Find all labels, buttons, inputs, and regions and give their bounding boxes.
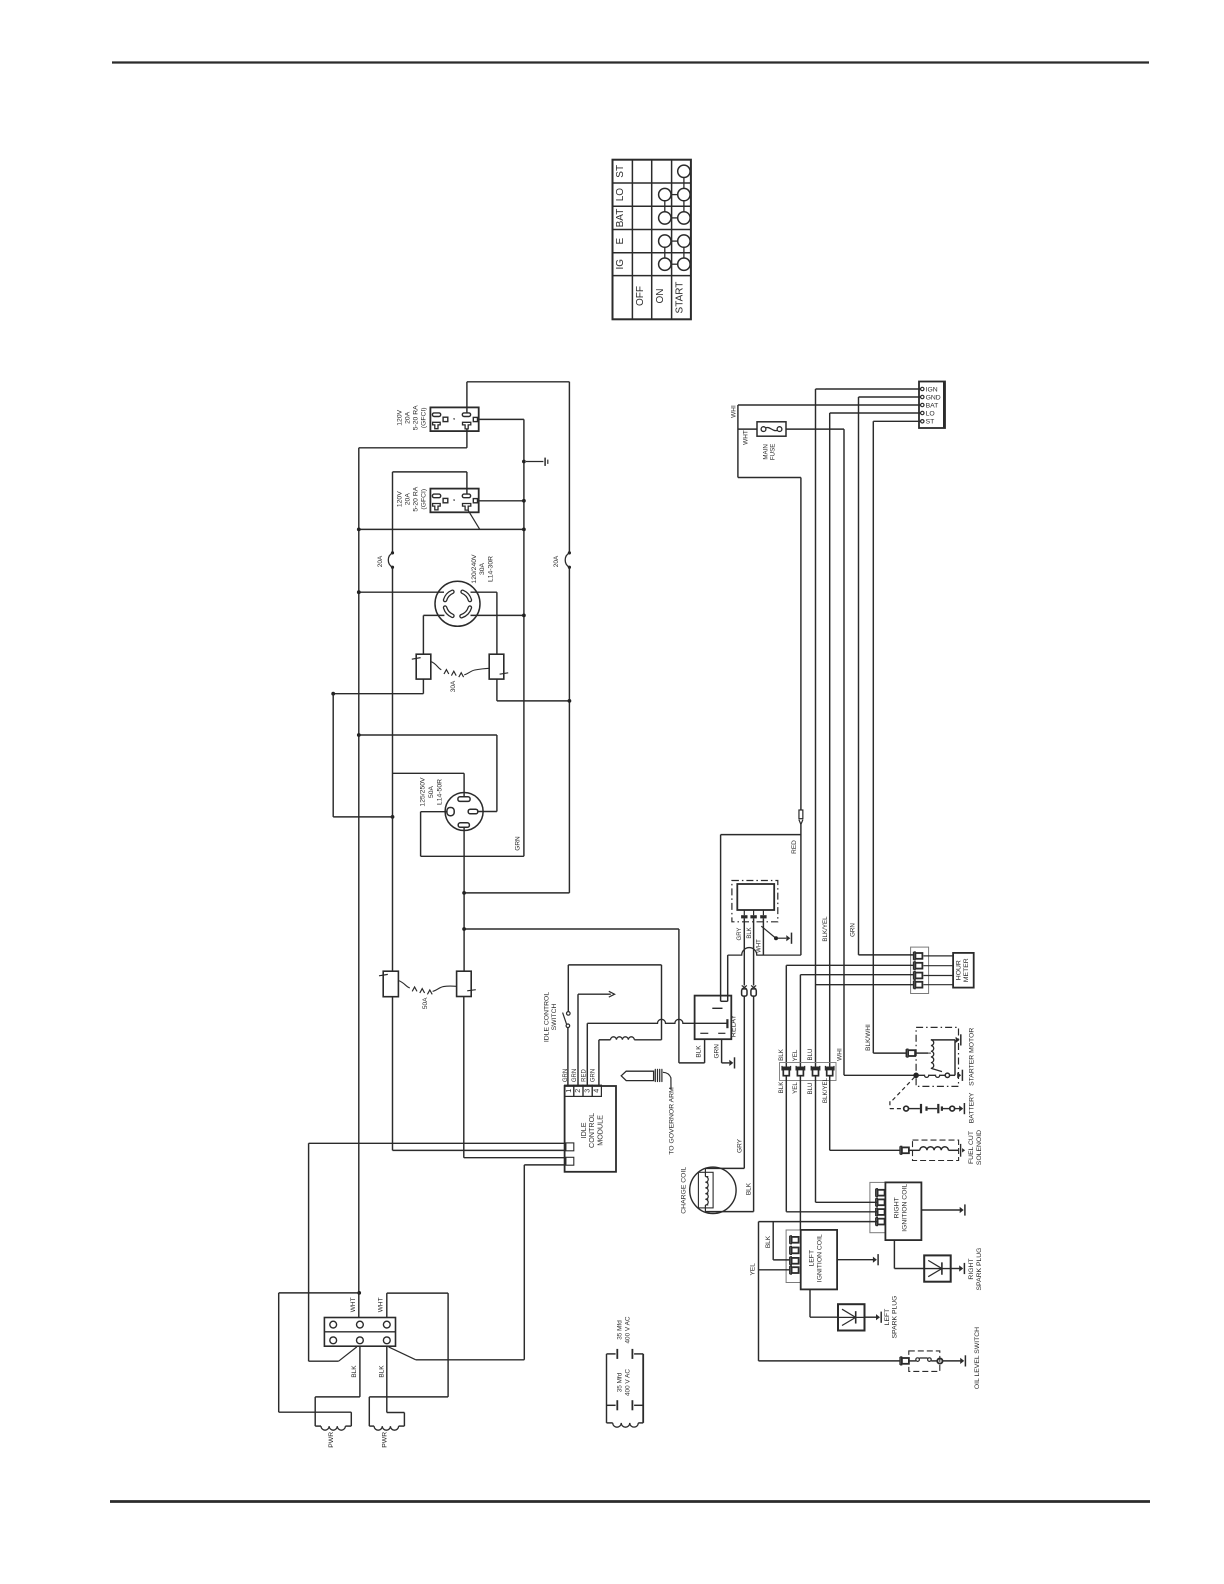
module pin1 wire to switch xyxy=(567,1028,569,1086)
table contact circles ON column xyxy=(659,188,671,200)
svg-text:BATTERY: BATTERY xyxy=(969,1092,976,1123)
wire to hour meter pin2 xyxy=(786,964,913,966)
svg-text:30A: 30A xyxy=(479,562,486,575)
generator winding xyxy=(607,1422,613,1424)
svg-text:BLK: BLK xyxy=(351,1365,358,1378)
svg-text:WHT: WHT xyxy=(350,1297,357,1312)
svg-text:5-20 RA: 5-20 RA xyxy=(413,486,420,511)
L14-30R bottom-left wire xyxy=(423,614,444,616)
relay BLK lead xyxy=(704,1039,706,1063)
breaker feed vertical (20A left) xyxy=(392,472,394,553)
svg-text:ON: ON xyxy=(655,289,666,304)
terminal ST xyxy=(921,420,924,423)
svg-text:SWITCH: SWITCH xyxy=(551,1004,558,1031)
ground (left coil) xyxy=(873,1257,877,1263)
svg-text:GRY: GRY xyxy=(736,1138,743,1153)
starter solenoid plug xyxy=(873,1052,906,1054)
switch wire to idle solenoid coil xyxy=(567,965,569,1012)
svg-text:BLK/YEL: BLK/YEL xyxy=(822,916,829,942)
right coil pin xyxy=(875,1189,877,1197)
oil level switch xyxy=(759,1360,900,1362)
GRN wire to hour meter xyxy=(859,954,914,956)
svg-text:WHT: WHT xyxy=(757,939,763,953)
BLU wire to right coil xyxy=(816,1201,878,1203)
ground (starter field) xyxy=(956,1037,960,1043)
svg-text:BLK: BLK xyxy=(746,1182,753,1195)
svg-text:BLK: BLK xyxy=(778,1048,785,1061)
hour meter pin xyxy=(913,952,915,960)
capacitor C2 35Mfd 400VAC xyxy=(607,1404,616,1406)
right coil pin xyxy=(875,1198,877,1206)
hour meter xyxy=(953,953,974,988)
right ignition coil connector xyxy=(870,1182,886,1232)
svg-text:GRN: GRN xyxy=(714,1044,721,1059)
svg-text:OFF: OFF xyxy=(635,286,646,306)
L14-30R bottom-right wire xyxy=(471,614,524,616)
capacitor rails xyxy=(606,1354,608,1423)
module pin 1 xyxy=(565,1085,574,1096)
L14-30R left wire xyxy=(359,591,444,593)
svg-text:MAIN: MAIN xyxy=(762,444,769,459)
right coil pin xyxy=(875,1208,877,1216)
ground (oil switch) xyxy=(960,1358,964,1364)
right ignition coil xyxy=(885,1182,921,1240)
junction dots xyxy=(522,460,526,464)
svg-text:35 Mfd: 35 Mfd xyxy=(616,1372,623,1392)
svg-text:YEL: YEL xyxy=(792,1049,799,1061)
connector BLU xyxy=(811,1067,820,1070)
right coil ground xyxy=(921,1209,960,1211)
YEL wire chain / oil switch feed xyxy=(758,1222,760,1361)
wire from breaker junction to relay BLK xyxy=(678,929,680,1063)
ground (starter) xyxy=(957,1072,961,1078)
svg-text:RELAY: RELAY xyxy=(731,1014,738,1037)
GRY lead down to charge coil xyxy=(743,918,745,985)
L14-50R bottom wire xyxy=(463,827,465,971)
30A right lower wire xyxy=(496,679,498,701)
rectifier pin WHT xyxy=(762,910,764,915)
circuit breaker 20A (right) xyxy=(568,551,571,554)
wire module feed from block xyxy=(308,1143,310,1361)
terminal GND xyxy=(921,395,924,398)
svg-text:BLK/WHI: BLK/WHI xyxy=(865,1024,872,1051)
hour meter pin xyxy=(913,981,915,989)
L14-30R right wire to 30A breaker xyxy=(471,591,497,593)
wire to hour meter pin3 xyxy=(800,974,913,976)
svg-text:WHT: WHT xyxy=(378,1297,385,1312)
svg-text:GRY: GRY xyxy=(737,928,743,941)
svg-text:YEL: YEL xyxy=(749,1263,756,1276)
BLK wire to right coil xyxy=(786,1211,877,1213)
RED wire vertical xyxy=(800,478,802,811)
idle control switch xyxy=(567,1012,571,1016)
left coil pin xyxy=(789,1257,791,1265)
ground symbol on bus xyxy=(526,461,543,463)
right 20A vertical xyxy=(568,382,570,553)
left coil pin xyxy=(789,1236,791,1244)
left coil BLK pin wire xyxy=(773,1259,790,1261)
connector BLK xyxy=(782,1067,791,1070)
battery xyxy=(904,1106,909,1111)
rectifier pin BLK xyxy=(753,910,755,915)
WHT jog wire xyxy=(738,477,801,479)
svg-text:E: E xyxy=(615,238,626,245)
svg-text:120V: 120V xyxy=(397,409,404,425)
right transformer PWR xyxy=(386,1346,388,1412)
relay contact ticks xyxy=(700,1032,708,1034)
ground (right plug) xyxy=(959,1265,963,1271)
svg-text:50A: 50A xyxy=(422,997,429,1009)
charge coil xyxy=(690,1167,736,1213)
wire to hour meter pin4 xyxy=(816,984,914,986)
wire BAT xyxy=(738,404,921,406)
svg-text:5-20 RA: 5-20 RA xyxy=(413,405,420,430)
svg-text:BLU: BLU xyxy=(807,1082,814,1094)
wire LO (BLK/YEL) xyxy=(830,412,921,414)
relay K1 xyxy=(695,996,732,1040)
rec2 neutral diagonal xyxy=(468,510,480,529)
svg-text:4: 4 xyxy=(592,1089,601,1093)
ground (relay GRN) xyxy=(729,1060,733,1066)
svg-text:GND: GND xyxy=(926,394,941,401)
table contact links xyxy=(664,201,666,212)
page top rule xyxy=(112,61,1149,63)
svg-text:30A: 30A xyxy=(450,680,457,692)
svg-text:ST: ST xyxy=(926,419,935,426)
svg-text:GRN: GRN xyxy=(591,1069,597,1082)
svg-text:YEL: YEL xyxy=(792,1082,799,1094)
right coil HT lead xyxy=(893,1240,895,1268)
rec2 right wire xyxy=(478,500,524,502)
receptacle GFCI 2 (120V 20A 5-20RA) xyxy=(430,489,478,513)
right loop xyxy=(386,1293,388,1317)
svg-text:LEFT: LEFT xyxy=(884,1309,891,1326)
ground (rectifier) xyxy=(786,935,790,941)
fuel cut solenoid xyxy=(830,1149,900,1151)
module pin 3 xyxy=(583,1085,592,1096)
svg-text:(GFCI): (GFCI) xyxy=(421,407,428,428)
right coil pin xyxy=(875,1218,877,1226)
svg-text:400 V AC: 400 V AC xyxy=(624,1316,631,1343)
svg-text:BLK: BLK xyxy=(378,1365,385,1378)
svg-text:L14-30R: L14-30R xyxy=(488,556,495,582)
module pin3 RED wire to relay (two hops) xyxy=(586,1023,588,1086)
fuse right lead / WHI wire to starter xyxy=(786,428,844,430)
left coil pin xyxy=(789,1266,791,1274)
svg-text:IDLE CONTROL: IDLE CONTROL xyxy=(543,992,550,1042)
svg-text:LO: LO xyxy=(615,188,626,202)
svg-text:PWR: PWR xyxy=(328,1432,335,1448)
connector YEL xyxy=(796,1067,805,1070)
rec1 bottom wire xyxy=(466,429,468,448)
svg-text:3: 3 xyxy=(582,1089,591,1093)
right spark plug xyxy=(924,1255,951,1281)
svg-text:HOUR: HOUR xyxy=(956,960,963,980)
svg-text:20A: 20A xyxy=(377,555,384,567)
circuit breaker 30A (two-pole) xyxy=(416,654,431,679)
wire module return to block xyxy=(523,1165,525,1360)
svg-text:BLU: BLU xyxy=(807,1048,814,1060)
svg-text:OIL LEVEL SWITCH: OIL LEVEL SWITCH xyxy=(974,1327,981,1389)
rec1 right wire to ground bus xyxy=(478,418,524,420)
receptacle L14-50R (125/250V 50A) xyxy=(445,793,483,831)
ground (battery) xyxy=(959,1106,963,1112)
L14-50R left (GRN) wire xyxy=(421,811,447,813)
svg-text:BLK/YEL: BLK/YEL xyxy=(822,1077,829,1103)
svg-text:IGNITION COIL: IGNITION COIL xyxy=(902,1184,909,1232)
module pin2 wire with arrow xyxy=(577,994,579,1086)
svg-text:RED: RED xyxy=(581,1069,587,1082)
svg-text:125/250V: 125/250V xyxy=(420,777,427,807)
svg-text:LEFT: LEFT xyxy=(809,1250,816,1267)
svg-text:(GFCI): (GFCI) xyxy=(421,489,428,510)
left coil pin xyxy=(789,1246,791,1254)
left coil ground xyxy=(837,1259,873,1261)
receptacle L14-30R (120/240V 30A) xyxy=(435,581,480,626)
svg-text:FUEL CUT: FUEL CUT xyxy=(968,1131,975,1164)
svg-text:120/240V: 120/240V xyxy=(471,554,478,584)
wires below connectors xyxy=(785,1076,787,1212)
svg-text:BLK: BLK xyxy=(765,1235,772,1248)
svg-text:IGNITION COIL: IGNITION COIL xyxy=(817,1234,824,1282)
ground (left plug) xyxy=(876,1314,880,1320)
svg-text:RIGHT: RIGHT xyxy=(968,1258,975,1279)
module input wires xyxy=(309,1142,566,1144)
wire IGN xyxy=(816,388,921,390)
30A left lower wire xyxy=(422,679,424,694)
svg-text:WHI: WHI xyxy=(837,1048,844,1061)
dashed link to battery xyxy=(892,1077,915,1101)
svg-text:START: START xyxy=(675,282,686,314)
svg-text:20A: 20A xyxy=(553,555,560,567)
left loop xyxy=(357,1291,361,1295)
rectifier (dashed outline) xyxy=(732,881,778,922)
svg-text:STARTER MOTOR: STARTER MOTOR xyxy=(969,1028,976,1086)
svg-text:GRN: GRN xyxy=(563,1069,569,1082)
idle solenoid coil xyxy=(611,1037,635,1040)
relay feed branch (bottom, with hop over GRY/BLK) xyxy=(728,948,801,956)
svg-text:FUSE: FUSE xyxy=(770,444,777,461)
left ignition coil xyxy=(801,1230,837,1290)
hour meter pin xyxy=(913,962,915,970)
svg-text:RIGHT: RIGHT xyxy=(893,1197,900,1218)
svg-text:400 V AC: 400 V AC xyxy=(624,1369,631,1396)
idle control module xyxy=(565,1086,616,1172)
terminal block TB1 xyxy=(324,1318,395,1347)
left coil HT lead xyxy=(809,1289,811,1317)
svg-text:50A: 50A xyxy=(428,785,435,798)
svg-text:SPARK PLUG: SPARK PLUG xyxy=(976,1248,983,1291)
svg-text:GRN: GRN xyxy=(849,923,856,937)
svg-text:WHT: WHT xyxy=(743,430,750,445)
main fuse F1 xyxy=(757,422,786,436)
svg-text:PWR: PWR xyxy=(382,1432,389,1448)
inline connector on BLK xyxy=(751,986,756,990)
svg-text:BLK: BLK xyxy=(747,927,753,938)
idle solenoid plunger (to governor arm) xyxy=(621,1071,653,1080)
relay feed branch (top) xyxy=(721,834,801,836)
rec2 top wire xyxy=(466,472,468,494)
receptacle GFCI 1 (120V 20A 5-20RA) xyxy=(430,407,478,431)
svg-text:BAT: BAT xyxy=(926,402,939,409)
rectifier pin GRY xyxy=(743,910,745,915)
terminal LO xyxy=(921,411,924,414)
svg-text:2: 2 xyxy=(573,1089,582,1093)
starter motor (dash-dot box) xyxy=(916,1027,958,1086)
ground (right coil) xyxy=(960,1207,964,1213)
svg-text:SOLENOID: SOLENOID xyxy=(976,1130,983,1165)
relay GRN lead xyxy=(721,1039,723,1063)
L14-50R top wire xyxy=(463,773,465,797)
left ignition coil connector xyxy=(786,1230,801,1283)
svg-text:TO GOVERNOR ARM: TO GOVERNOR ARM xyxy=(668,1087,675,1155)
connector BLK/YEL xyxy=(825,1067,834,1070)
rec1 top wire xyxy=(466,382,468,413)
RED inline fuse xyxy=(799,810,803,819)
terminal strip xyxy=(919,382,945,429)
starter solenoid coil xyxy=(928,1052,931,1054)
svg-text:METER: METER xyxy=(963,958,970,982)
svg-text:BLK: BLK xyxy=(778,1081,785,1094)
svg-text:WHI: WHI xyxy=(731,405,738,418)
module pin 4 xyxy=(592,1085,601,1096)
svg-text:BAT: BAT xyxy=(615,209,626,228)
svg-text:20A: 20A xyxy=(405,411,412,424)
terminal IGN xyxy=(921,387,924,390)
svg-text:GRN: GRN xyxy=(515,836,522,851)
svg-text:LO: LO xyxy=(926,410,935,417)
svg-text:CHARGE COIL: CHARGE COIL xyxy=(681,1167,688,1214)
shared BLK wire (pin4) xyxy=(759,1221,878,1223)
wire GND xyxy=(859,396,921,398)
BLK lead down to charge coil xyxy=(753,918,755,985)
engine connector block xyxy=(780,1063,837,1081)
svg-text:35 Mfd: 35 Mfd xyxy=(616,1320,623,1340)
ground tap off WHT lead xyxy=(761,926,775,937)
svg-text:BLK: BLK xyxy=(696,1045,703,1058)
svg-text:MODULE: MODULE xyxy=(595,1115,604,1146)
svg-text:120V: 120V xyxy=(397,491,404,507)
capacitor C1 35Mfd 400VAC xyxy=(607,1353,616,1355)
hour meter pin xyxy=(913,972,915,980)
svg-text:20A: 20A xyxy=(405,493,412,506)
wire ST (BLK/WHI) xyxy=(873,420,920,422)
fuse left lead xyxy=(738,428,757,430)
svg-text:SPARK PLUG: SPARK PLUG xyxy=(891,1296,898,1339)
circuit breaker 50A (two-pole) xyxy=(383,971,398,997)
svg-text:IGN: IGN xyxy=(926,386,938,393)
inline connector on GRY xyxy=(742,986,747,990)
page bottom rule xyxy=(110,1500,1150,1503)
svg-text:GRN: GRN xyxy=(572,1069,578,1082)
L14-50R right wire xyxy=(478,811,497,813)
long WHT vertical to terminal block xyxy=(358,448,360,1318)
rectifier body xyxy=(737,884,774,910)
starter contact xyxy=(913,1073,919,1079)
svg-text:L14-50R: L14-50R xyxy=(437,779,444,805)
50A outputs xyxy=(392,997,394,1151)
terminal BAT xyxy=(921,403,924,406)
module pin 2 xyxy=(574,1085,583,1096)
left spark plug xyxy=(838,1304,865,1330)
circuit breaker 20A (left) xyxy=(391,551,394,554)
svg-text:IG: IG xyxy=(615,259,626,270)
svg-text:1: 1 xyxy=(564,1089,573,1093)
table contact circles START column xyxy=(678,165,690,177)
svg-text:ST: ST xyxy=(615,165,626,178)
wire from junction left xyxy=(333,816,392,818)
svg-text:RED: RED xyxy=(791,840,798,854)
left transformer PWR xyxy=(359,1346,361,1397)
module left notches xyxy=(566,1143,574,1151)
WHT lead xyxy=(762,918,764,955)
ignition switch position table xyxy=(613,160,691,320)
hour meter connector xyxy=(911,947,929,993)
